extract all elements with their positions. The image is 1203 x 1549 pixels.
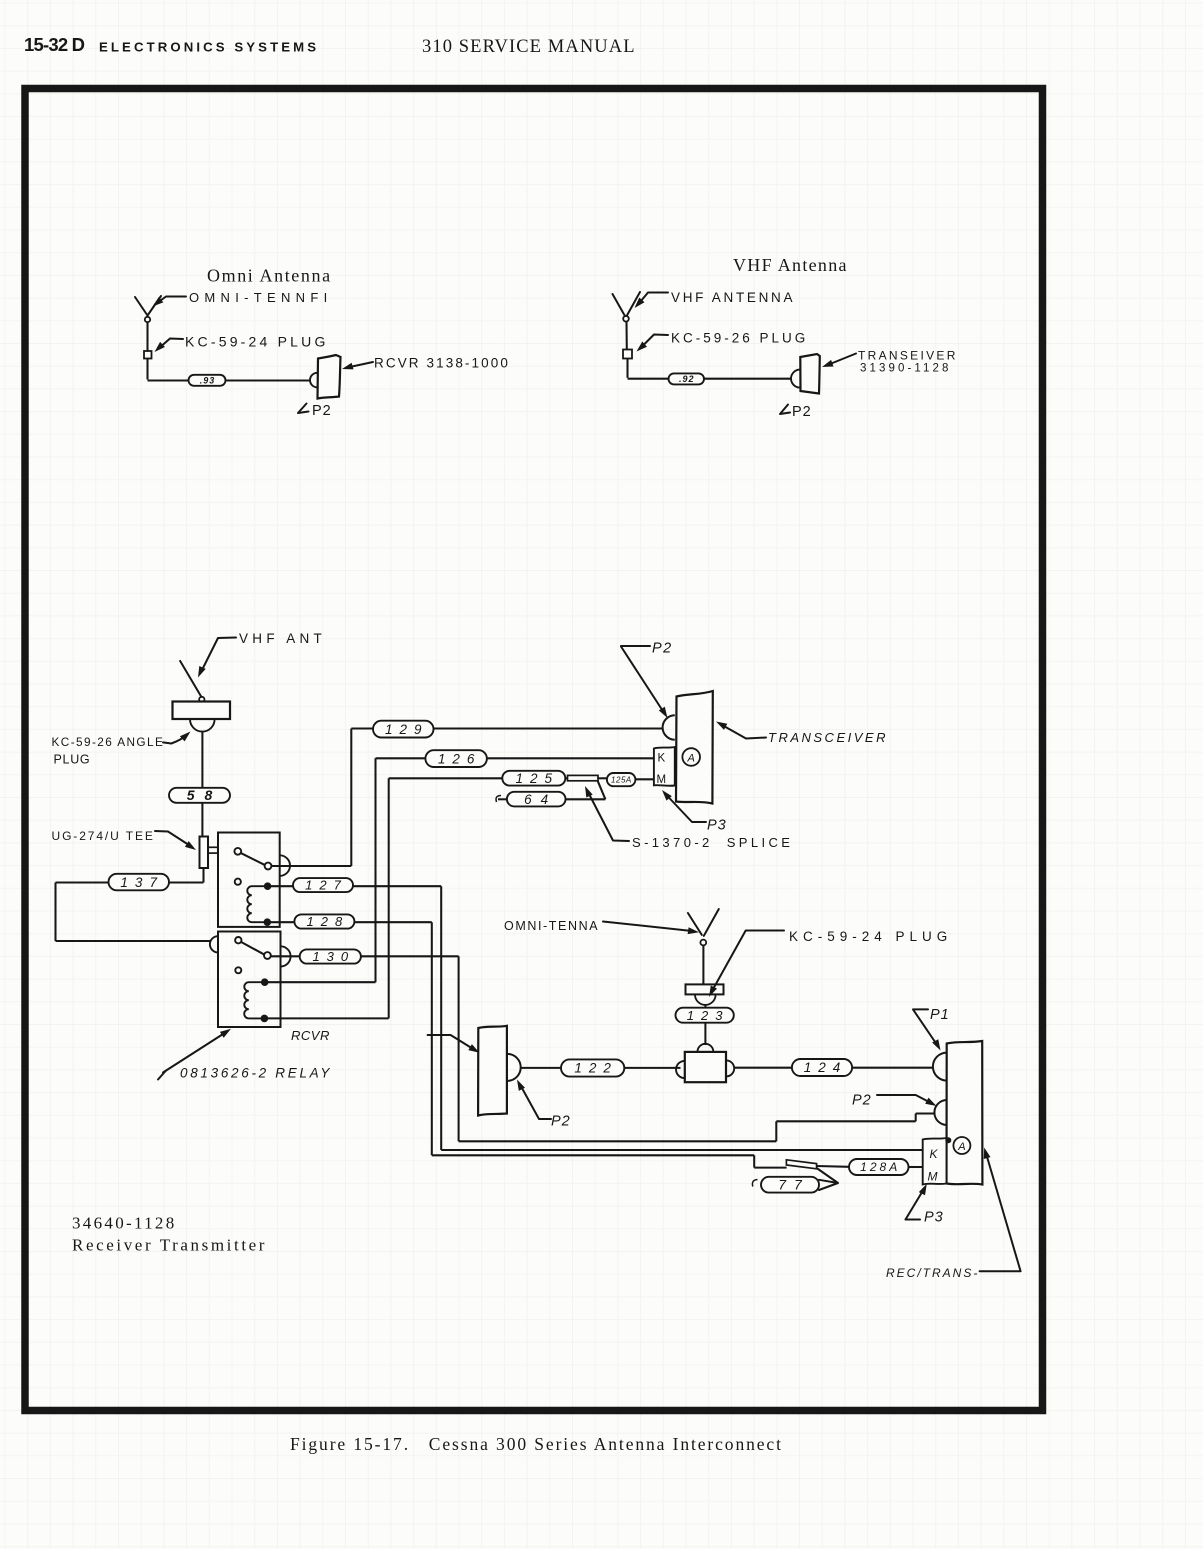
svg-text:REC/TRANS-: REC/TRANS-: [886, 1266, 979, 1280]
svg-text:K: K: [930, 1147, 939, 1161]
svg-text:KC-59-26 ANGLE: KC-59-26 ANGLE: [52, 735, 165, 749]
svg-text:VHF ANTENNA: VHF ANTENNA: [671, 290, 795, 305]
svg-text:64: 64: [524, 792, 557, 807]
svg-text:OMNI-TENNFI: OMNI-TENNFI: [189, 290, 333, 305]
svg-text:TRANSEIVER: TRANSEIVER: [858, 349, 958, 363]
svg-text:Figure 15-17. Cessna 300 Ser: Figure 15-17. Cessna 300 Series Antenna …: [290, 1434, 783, 1454]
svg-text:0813626-2 RELAY: 0813626-2 RELAY: [180, 1066, 332, 1081]
svg-text:KC-59-24 PLUG: KC-59-24 PLUG: [185, 334, 329, 350]
svg-text:P1: P1: [930, 1007, 950, 1023]
svg-text:124: 124: [804, 1060, 848, 1075]
svg-text:ELECTRONICS SYSTEMS: ELECTRONICS SYSTEMS: [99, 40, 319, 55]
svg-text:58: 58: [187, 787, 223, 803]
svg-text:P3: P3: [924, 1210, 944, 1226]
svg-text:125: 125: [516, 771, 560, 786]
svg-text:A: A: [687, 753, 695, 765]
svg-text:127: 127: [305, 878, 348, 893]
svg-text:P2: P2: [551, 1114, 571, 1130]
svg-text:Receiver Transmitter: Receiver Transmitter: [72, 1236, 267, 1255]
svg-text:122: 122: [574, 1061, 618, 1076]
svg-text:128: 128: [307, 914, 350, 929]
svg-text:128A: 128A: [860, 1160, 900, 1174]
svg-text:137: 137: [120, 875, 164, 890]
svg-text:M: M: [657, 774, 667, 786]
svg-text:A: A: [957, 1141, 965, 1153]
svg-text:VHF ANT: VHF ANT: [239, 631, 326, 646]
svg-text:P2: P2: [652, 641, 673, 657]
svg-text:130: 130: [312, 949, 355, 964]
svg-text:P2: P2: [312, 403, 332, 419]
svg-text:M: M: [928, 1170, 938, 1184]
svg-text:P2: P2: [852, 1093, 872, 1109]
svg-text:34640-1128: 34640-1128: [72, 1214, 177, 1233]
svg-text:P3: P3: [707, 818, 727, 834]
svg-text:126: 126: [438, 751, 482, 766]
svg-text:123: 123: [687, 1008, 730, 1023]
svg-text:125A: 125A: [611, 775, 632, 784]
svg-text:129: 129: [385, 722, 429, 737]
svg-text:RCVR 3138-1000: RCVR 3138-1000: [374, 356, 510, 371]
svg-text:77: 77: [778, 1177, 810, 1193]
svg-text:UG-274/U TEE: UG-274/U TEE: [52, 829, 155, 843]
svg-text:K: K: [658, 753, 666, 765]
svg-text:S-1370-2 SPLICE: S-1370-2 SPLICE: [632, 835, 793, 850]
svg-text:.93: .93: [200, 375, 216, 385]
svg-text:PLUG: PLUG: [54, 753, 91, 767]
svg-text:15-32 D: 15-32 D: [24, 34, 85, 55]
svg-text:31390-1128: 31390-1128: [860, 363, 952, 375]
svg-text:.92: .92: [679, 374, 695, 384]
svg-text:310 SERVICE MANUAL: 310 SERVICE MANUAL: [422, 37, 636, 57]
svg-text:TRANSCEIVER: TRANSCEIVER: [768, 730, 888, 745]
svg-text:Omni Antenna: Omni Antenna: [207, 266, 332, 286]
svg-text:KC-59-24 PLUG: KC-59-24 PLUG: [789, 929, 952, 944]
svg-text:P2: P2: [792, 404, 812, 420]
svg-text:OMNI-TENNA: OMNI-TENNA: [504, 919, 599, 933]
svg-text:KC-59-26 PLUG: KC-59-26 PLUG: [671, 331, 808, 346]
svg-text:RCVR: RCVR: [291, 1028, 330, 1043]
svg-text:VHF Antenna: VHF Antenna: [733, 255, 848, 275]
